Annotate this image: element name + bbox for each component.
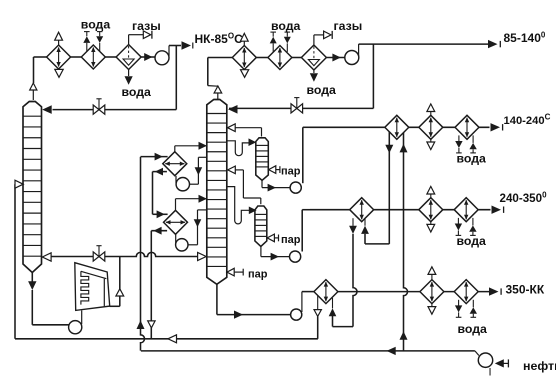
svg-text:вода: вода	[122, 85, 152, 99]
svg-text:85-1400: 85-1400	[504, 31, 546, 46]
pipe: E-1 to E-2	[71, 56, 82, 58]
svg-text:350-КК: 350-КК	[506, 282, 545, 296]
pipe: K-2 draw to K-3 with U-seal	[227, 141, 249, 156]
vent triangle on K-2 overhead	[217, 93, 219, 99]
condenser-separator E-3 of K-1 overhead	[116, 45, 141, 70]
crude inlet arrow + tick	[504, 362, 509, 364]
pump H-7 (K-3 bottoms)	[290, 182, 301, 193]
check valve: газы outlet of K-2 condenser	[324, 31, 331, 39]
arrow + tick: 140-240 product	[491, 123, 501, 131]
pipe: crude down from E-7	[388, 132, 390, 244]
heat exchanger E-14 (350-KK, air cooled)	[420, 280, 444, 304]
pipe: K-4 overhead vapor to K-2	[260, 198, 262, 204]
pipe: K-2 reflux line	[229, 107, 373, 109]
pipe: E-2 to condenser E-3	[105, 56, 116, 58]
arrow: hot jet into K-1	[42, 253, 51, 261]
pipe: K-3 overhead vapor to K-2	[261, 128, 263, 137]
pipe: E-4 to E-5	[256, 57, 268, 59]
pipe: gas line from E-6	[313, 35, 315, 45]
heat exchanger E-15 (350-KK, water cooled)	[454, 280, 478, 304]
pipe: K-4 bottoms to pump	[260, 246, 262, 256]
pump H-8 (K-4 bottoms)	[290, 251, 301, 262]
pipe: stripper K-3 pump discharge riser	[302, 127, 304, 183]
heat exchanger E-5 (K-2 overhead, water cooled)	[268, 46, 292, 70]
distillation column K-2 (main atmospheric tower)	[207, 100, 227, 285]
pipe: K-1 overhead vapor riser	[33, 57, 35, 83]
pipe: crude out of E-13 to line A	[317, 296, 319, 310]
pipe: K-3 bottoms to pump	[261, 180, 263, 187]
pump H-3 (circulating reflux 1)	[176, 178, 189, 191]
arrow + tick: 85-140 product	[488, 40, 498, 48]
vent triangle on K-1 overhead line	[30, 83, 37, 90]
pipe: K-1 overhead line to exchangers	[34, 56, 47, 58]
water drain from E-6	[313, 70, 315, 73]
pipe: E-5 to condenser E-6	[292, 57, 302, 59]
pipe: crude riser to E-7 (hop over line A)	[141, 157, 145, 351]
heat exchanger E-13 (350-KK vs crude)	[314, 280, 338, 304]
pipe: crude out of T-1 down to T-2	[153, 171, 167, 173]
pipe: 140-240 product line	[310, 126, 490, 128]
stripping column K-3	[256, 138, 268, 181]
pipe: H-2 discharge riser	[358, 44, 360, 56]
steam inlet пар to K-2 bottom	[227, 268, 234, 276]
svg-text:газы: газы	[132, 19, 161, 33]
svg-text:вода: вода	[457, 234, 487, 248]
svg-text:вода: вода	[81, 18, 111, 32]
heat exchanger E-2 (K-1 overhead, water cooled)	[81, 45, 105, 69]
pump H-6 (K-1 bottoms to furnace)	[69, 321, 82, 334]
steam inlet пар to K-4	[267, 234, 274, 242]
arrow: reflux into K-2 top	[228, 105, 238, 114]
svg-text:НК-85ОС: НК-85ОС	[195, 32, 244, 47]
pump H-4 (circulating reflux 2)	[176, 239, 188, 251]
pipe: 240-350 product line	[310, 209, 491, 211]
svg-text:вода: вода	[271, 19, 301, 33]
pipe: furnace outlet riser	[110, 305, 120, 307]
heat exchanger T-1 (circ reflux 1 vs crude)	[163, 152, 187, 176]
vent triangle on furnace outlet	[116, 289, 124, 296]
stripping column K-4	[255, 206, 267, 246]
valve on K-1 reflux	[93, 105, 105, 114]
svg-text:пар: пар	[248, 268, 268, 280]
pipe: circ reflux 2 return to K-2	[175, 199, 177, 211]
distillation column K-1 (pre-flash tower)	[23, 102, 42, 273]
pipe: H-1 discharge riser	[168, 46, 170, 57]
pipe: stripper K-4 pump discharge riser	[301, 210, 303, 252]
valve on K-2 reflux	[291, 104, 303, 113]
pipe: K-1 bottoms line	[31, 273, 33, 283]
svg-text:газы: газы	[334, 19, 363, 33]
check valve: газы outlet of K-1 condenser	[143, 31, 150, 39]
pipe: hot jet line to K-1 and feed to K-2 (with hops)	[52, 256, 96, 258]
pipe: K-2 circ reflux 1 draw	[198, 156, 206, 158]
pipe: H-5 discharge to E-13	[301, 292, 303, 312]
svg-text:пар: пар	[281, 234, 301, 246]
pipe: crude feed riser to K-1	[14, 184, 16, 339]
pipe: jog to E-10 crude inlet	[365, 243, 389, 245]
heat exchanger E-7 (140-240 vs crude)	[385, 115, 409, 139]
pipe: E-3 to pump H-1 with arrow	[141, 56, 155, 58]
svg-text:вода: вода	[457, 151, 487, 165]
heat exchanger E-12 (240-350, water cooled)	[454, 198, 478, 222]
pipe: H-6 discharge to furnace	[81, 310, 83, 324]
arrow + tick: 240-350 product	[492, 206, 502, 214]
pipe: K-1 reflux branch down	[175, 46, 177, 110]
pipe: K-2 draw to K-4 with U-seal	[227, 187, 249, 224]
svg-text:140-240С: 140-240С	[504, 112, 551, 127]
water drain from E-3	[128, 70, 130, 77]
pipe: K-2 bottoms line	[216, 284, 218, 314]
pipe: K-2 reflux branch down	[372, 44, 374, 108]
pipe: H-4 to T-2	[175, 235, 177, 244]
pipe: K-2 circ reflux 2 draw	[198, 209, 207, 211]
heat exchanger E-8 (140-240, air cooled)	[419, 115, 443, 139]
pipe: crude into exchanger T-2	[153, 213, 168, 215]
pipe: crude up into E-13	[332, 316, 334, 327]
arrow: crude feed into K-1	[15, 180, 23, 188]
steam inlet пар to K-3	[269, 166, 276, 174]
svg-text:I: I	[489, 367, 492, 379]
heat exchanger T-2 (circ reflux 2 vs crude)	[164, 210, 188, 234]
pipe: preheated crude line A to K-1	[15, 338, 318, 340]
heat exchanger E-10 (240-350 vs crude)	[350, 198, 374, 222]
tube furnace P-1	[75, 263, 110, 311]
heat exchanger E-4 (K-2 overhead, air cooled)	[232, 46, 256, 70]
pump H-1 (K-1 overhead product)	[155, 51, 169, 65]
pipe: crude header line B	[141, 350, 475, 352]
arrow: furnace feed into K-2	[198, 252, 207, 260]
svg-text:вода: вода	[307, 83, 337, 97]
pipe: K-2 overhead riser	[207, 58, 209, 86]
pipe: gas line from E-3	[128, 35, 130, 45]
arrow + tick: 350-KK product	[489, 287, 499, 295]
pump H-2 (K-2 overhead product)	[345, 51, 359, 65]
pipe: 350-KK product line	[338, 291, 489, 293]
pipe: E-6 to pump H-2	[326, 57, 344, 59]
pipe: crude branch riser through E-7 E-10 E-13 (hops)	[404, 133, 408, 351]
valve on hot jet line	[93, 252, 105, 261]
pipe: circ reflux 1 return to K-2	[174, 146, 176, 152]
pipe: crude into exchanger T-1	[141, 156, 168, 158]
heat exchanger E-1 (K-1 overhead, air cooled)	[47, 45, 71, 69]
pump H-5 (K-2 bottoms)	[291, 309, 302, 320]
svg-text:240-3500: 240-3500	[500, 190, 548, 205]
svg-text:нефть: нефть	[523, 359, 556, 373]
condenser-separator E-6 of K-2 overhead	[301, 45, 326, 70]
svg-text:вода: вода	[458, 322, 488, 336]
pipe: K-1 reflux line	[53, 109, 177, 111]
heat exchanger E-9 (140-240, water cooled)	[455, 115, 479, 139]
heat exchanger E-11 (240-350, air cooled)	[419, 198, 443, 222]
arrow to НК-85 product	[182, 41, 192, 49]
svg-text:пар: пар	[281, 166, 301, 178]
pipe: crude pump discharge corner	[475, 351, 479, 356]
pipe: crude out of T-2 down to line A	[151, 230, 167, 232]
pipe: H-3 to T-1	[175, 176, 177, 183]
pipe: crude out of E-10 down (hop over 350-KK line)	[352, 218, 354, 226]
arrow: reflux into K-1 top	[42, 105, 52, 114]
pump I (crude charge pump)	[478, 353, 492, 367]
